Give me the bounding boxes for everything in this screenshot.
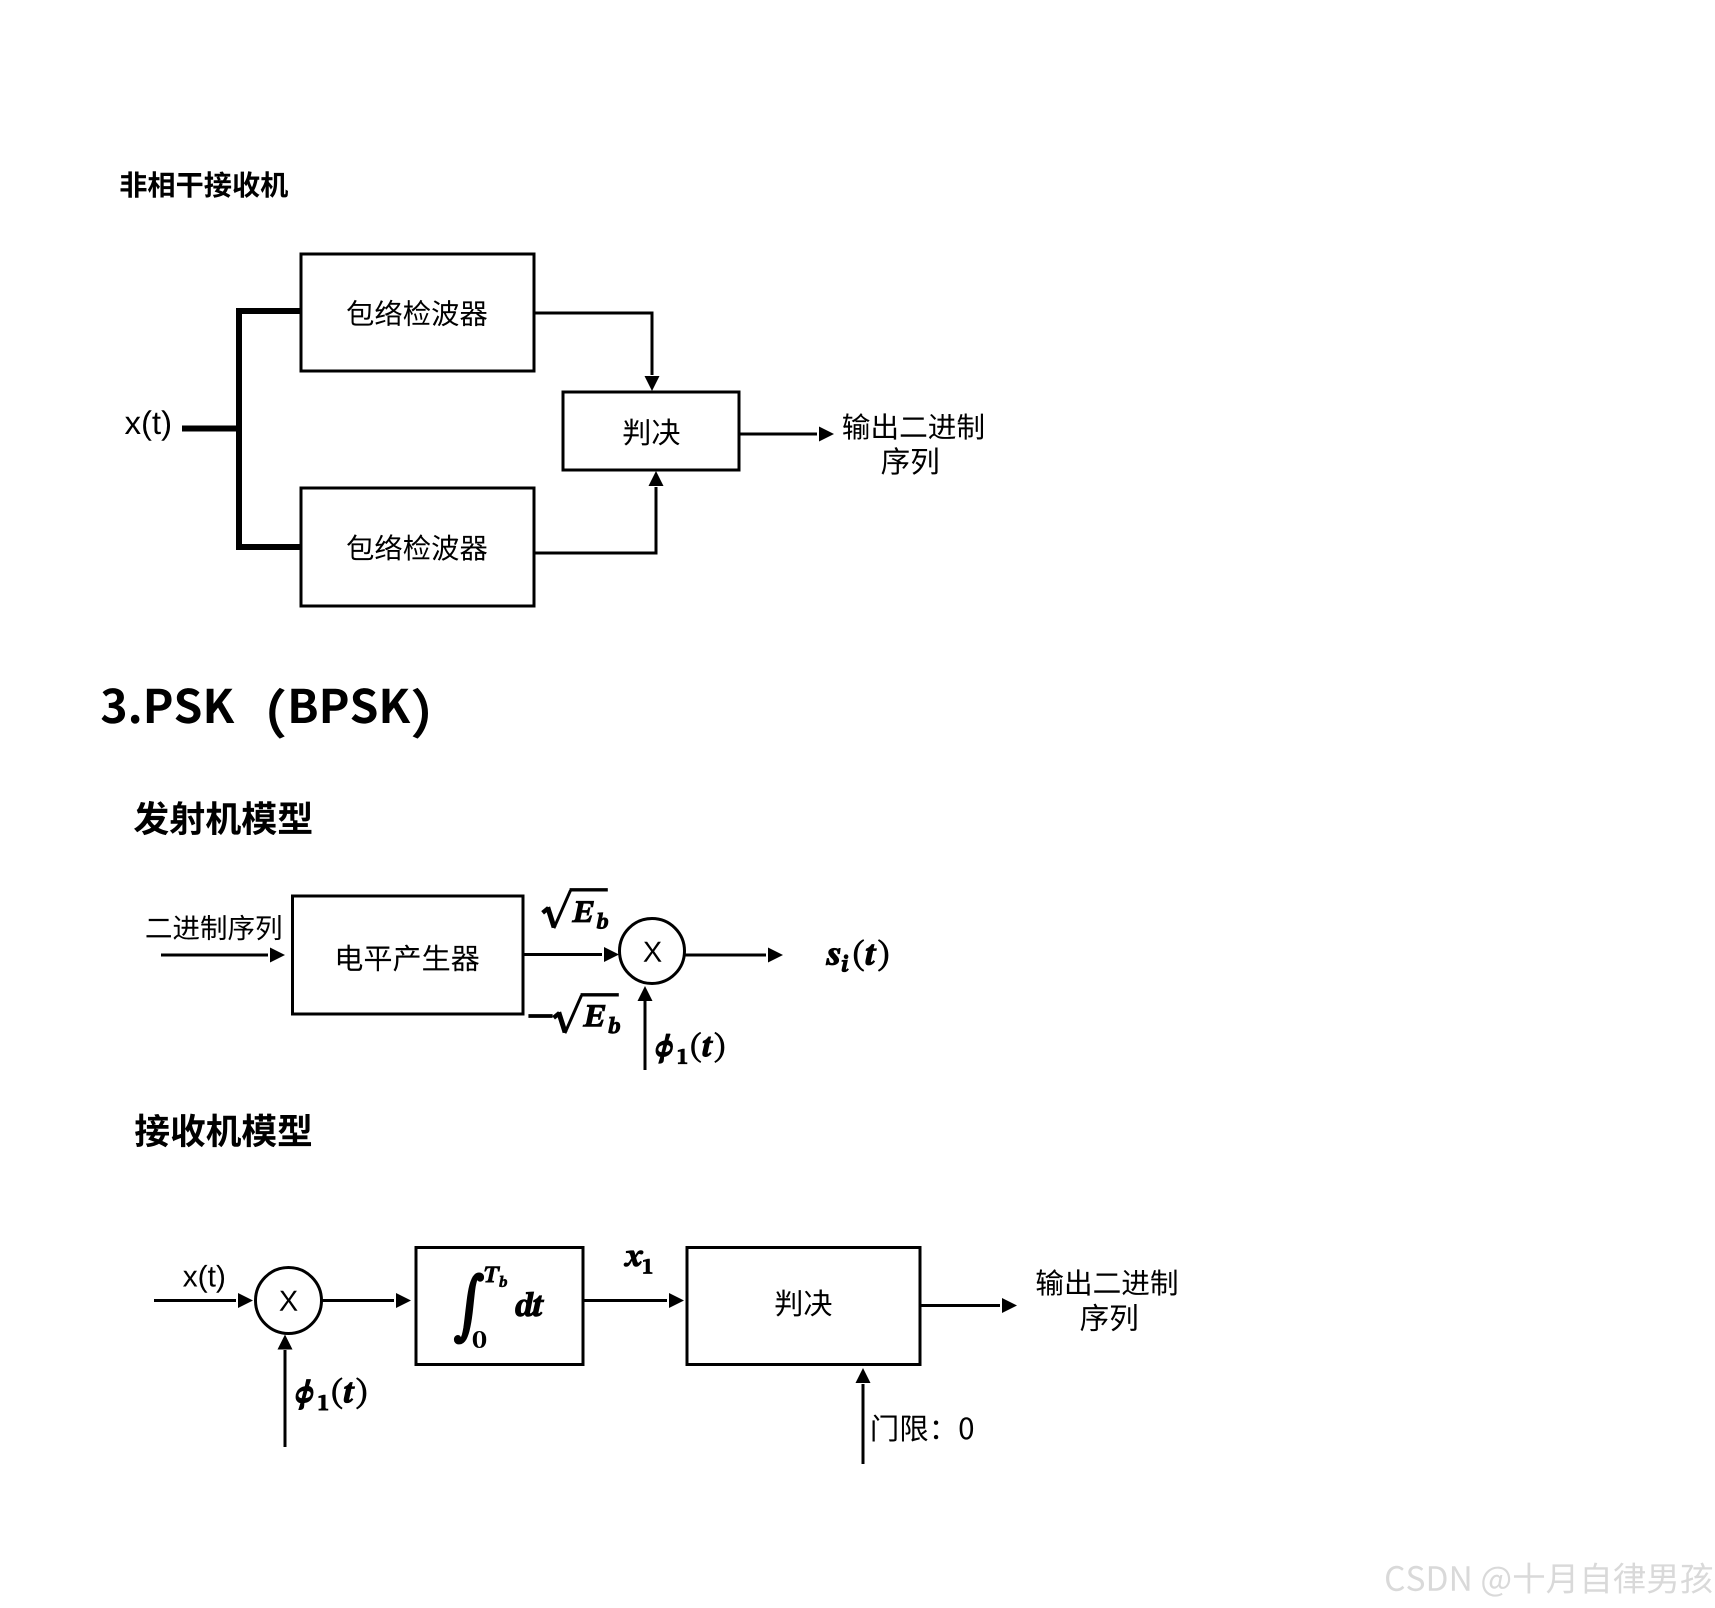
label threshold 门限: 0	[873, 1414, 974, 1441]
label -sqrt(Eb)	[529, 1015, 552, 1018]
box envelope detector 2	[301, 488, 534, 606]
label x1	[624, 1251, 652, 1274]
integral lower limit 0	[473, 1331, 486, 1348]
arrow phi1 into multiplier	[644, 1001, 647, 1070]
label output binary sequence receiver	[1037, 1269, 1177, 1295]
label output binary sequence	[843, 413, 983, 439]
wire branch to envelope detector 1	[236, 308, 302, 314]
label phi1(t) transmitter	[656, 1032, 724, 1063]
integral sign	[456, 1274, 482, 1342]
box level generator 电平产生器	[293, 896, 524, 1014]
heading 接收机模型	[135, 1114, 311, 1148]
heading 发射机模型	[134, 801, 311, 835]
wire branch to envelope detector 2	[236, 544, 302, 550]
arrow integrator to decision	[583, 1299, 667, 1302]
label phi1(t) receiver	[296, 1378, 366, 1410]
wire x(t) input stub	[182, 426, 242, 432]
label si(t)	[826, 940, 888, 972]
label x(t) receiver	[183, 1265, 224, 1293]
box envelope detector 1	[301, 254, 534, 371]
integrand dt	[515, 1292, 544, 1316]
arrow phi1 into multiplier receiver	[284, 1350, 287, 1447]
wire decision to output receiver	[920, 1304, 1000, 1307]
wire trunk vertical	[236, 308, 242, 550]
wire decision to output	[739, 433, 817, 436]
watermark CSDN	[1386, 1562, 1712, 1596]
multiplier circle X receiver	[256, 1268, 322, 1334]
box decision 判决	[563, 392, 739, 470]
arrow input to multiplier	[154, 1299, 236, 1302]
multiplier circle X	[620, 919, 685, 984]
heading 非相干接收机	[121, 171, 288, 198]
label x(t) input	[125, 410, 170, 441]
wire detector1 to decision	[534, 313, 652, 375]
wire level generator to multiplier	[523, 953, 602, 956]
heading 3.PSK (BPSK)	[102, 688, 428, 739]
box decision 判决 receiver	[687, 1248, 920, 1365]
arrow threshold into decision	[862, 1384, 865, 1464]
wire multiplier to output	[685, 954, 767, 957]
arrow input to level generator	[161, 954, 268, 957]
integral upper limit Tb	[485, 1266, 507, 1287]
wire detector2 to decision	[534, 487, 656, 553]
label sqrt(Eb)	[543, 890, 608, 928]
arrow multiplier to integrator	[322, 1299, 395, 1302]
label binary sequence 二进制序列	[146, 915, 280, 941]
box integrator	[416, 1248, 583, 1365]
